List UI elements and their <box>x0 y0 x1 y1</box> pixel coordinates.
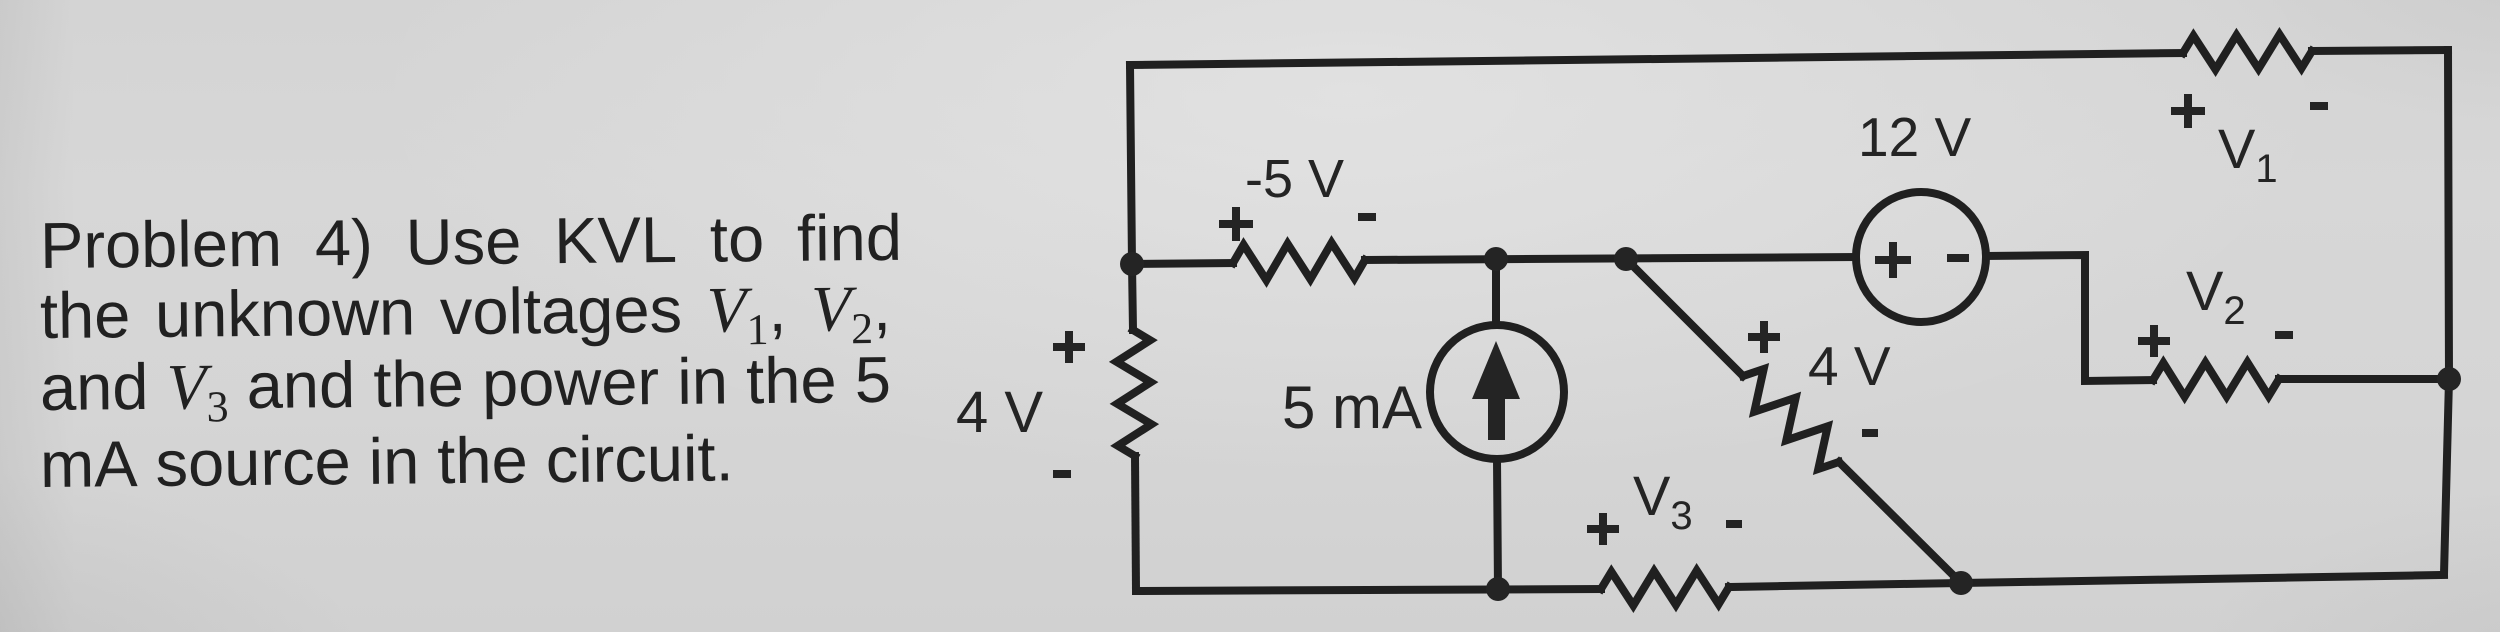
wire 5mA branch top <box>1492 260 1500 325</box>
wire left lower <box>1135 456 1136 591</box>
svg-text:4 V: 4 V <box>1808 335 1891 397</box>
resistor V3 <box>1601 571 1729 606</box>
current source 5mA circle <box>1430 325 1564 459</box>
problem statement line 1 <box>40 200 903 283</box>
minus sign inside 12V source <box>1947 254 1969 262</box>
wire middle to 12V source <box>1365 257 1856 260</box>
svg-text:V1: V1 <box>2218 117 2278 191</box>
minus sign of V2 <box>2275 331 2293 339</box>
wire diagonal upper <box>1626 259 1743 376</box>
problem statement line 3 <box>40 342 892 427</box>
node F diagonal bottom junction <box>1949 571 1973 595</box>
wire top <box>1130 53 2183 65</box>
wire middle left <box>1132 263 1233 264</box>
svg-text:5 mA: 5 mA <box>1282 374 1422 441</box>
node B 5mA top junction <box>1484 247 1508 271</box>
plus sign of 4V left resistor <box>1053 331 1085 363</box>
node E 5mA bottom junction <box>1486 577 1510 601</box>
wire bottom left <box>1136 589 1601 591</box>
wire V2 to right edge <box>2279 375 2449 383</box>
svg-text:12 V: 12 V <box>1858 106 1971 168</box>
resistor 4V left vertical <box>1117 330 1152 456</box>
minus sign of V1 <box>2310 102 2328 110</box>
svg-text:-5 V: -5 V <box>1245 149 1344 209</box>
minus sign of 4V diagonal resistor <box>1862 429 1878 437</box>
wire 5mA branch bottom <box>1497 459 1498 590</box>
svg-text:V2: V2 <box>2186 259 2246 333</box>
problem statement line 2 <box>40 270 892 355</box>
5mA source arrow <box>1472 341 1520 399</box>
svg-text:V3: V3 <box>1633 464 1693 538</box>
node C diagonal top junction <box>1614 247 1638 271</box>
minus sign of 4V left resistor <box>1053 470 1071 478</box>
plus sign inside 12V source <box>1875 242 1911 278</box>
wire top right corner <box>2312 50 2448 51</box>
problem statement line 4 <box>40 420 734 502</box>
node A left-middle junction <box>1120 252 1144 276</box>
wire left upper <box>1130 65 1133 330</box>
resistor -5V <box>1233 243 1365 280</box>
plus sign of V1 <box>2171 94 2205 128</box>
minus sign of V3 <box>1726 520 1742 528</box>
voltage source 12V circle <box>1856 192 1986 322</box>
node D right-middle junction <box>2437 367 2461 391</box>
plus sign of -5V resistor <box>1219 207 1253 241</box>
plus sign of 4V diagonal resistor <box>1748 321 1780 353</box>
plus sign of V2 <box>2138 325 2170 357</box>
resistor V2 <box>2153 362 2279 396</box>
wire 12V to corner down to V2 <box>1986 255 2153 381</box>
resistor 4V diagonal <box>1743 369 1839 469</box>
wire right edge <box>2444 50 2449 574</box>
plus sign of V3 <box>1587 513 1619 545</box>
resistor V1 <box>2183 35 2312 70</box>
minus sign of -5V resistor <box>1358 213 1376 221</box>
wire diagonal lower <box>1839 462 1961 583</box>
wire bottom right <box>1729 575 2444 587</box>
svg-text:4 V: 4 V <box>956 380 1043 445</box>
